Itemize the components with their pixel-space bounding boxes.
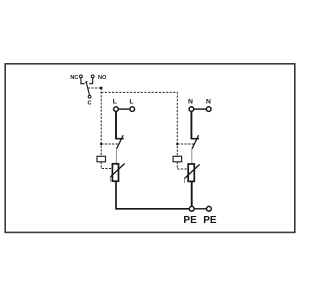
wire N1 down [190, 111, 192, 138]
wire L1-L2 [118, 108, 130, 110]
wire link lever to RV1 (gray) [115, 149, 117, 164]
terminal C [88, 95, 91, 98]
varistor RV1 diagonal [110, 164, 124, 177]
dashed link branch to right column [101, 92, 177, 156]
varistor RV1 body [112, 164, 118, 181]
svg-text:N: N [206, 99, 211, 106]
varistor RV2 body [188, 164, 194, 181]
disconnector F1 fixed contact foot [115, 138, 123, 140]
terminal L2 [130, 107, 135, 112]
svg-text:L: L [113, 99, 117, 106]
wire N1-N2 [194, 108, 207, 110]
switch lever S1 (changeover remote-signal contact) [86, 82, 89, 95]
dashed link T1 to varistor RV1 [101, 162, 112, 169]
svg-text:NC: NC [70, 75, 78, 81]
terminal N2 [206, 107, 211, 112]
svg-text:PE: PE [183, 215, 197, 226]
varistor RV1 tail (gray) [109, 177, 111, 182]
wire PE1-PE2 [194, 208, 206, 210]
terminal L1 [114, 107, 119, 112]
terminal PE2 [207, 206, 212, 211]
thermal indicator box T2 [173, 156, 182, 162]
wire NC leg [81, 78, 85, 84]
wire link lever to RV2 (gray) [191, 149, 193, 165]
node C junction dot [176, 143, 178, 145]
node B junction dot [100, 143, 102, 145]
disconnector F2 lever [192, 137, 198, 149]
dashed link node B to left disconnector [101, 143, 118, 145]
node A junction dot [100, 87, 103, 90]
border frame [5, 64, 295, 233]
svg-text:PE: PE [203, 215, 217, 226]
terminal N1 [189, 107, 194, 112]
svg-text:C: C [88, 101, 92, 107]
contact tick S1 [85, 80, 87, 83]
wire RV2 down to PE terminal [191, 181, 193, 206]
svg-text:N: N [188, 99, 193, 106]
terminal NC [80, 75, 83, 78]
disconnector F1 lever [117, 137, 123, 149]
disconnector F1 contact tick [122, 135, 123, 137]
terminal NO [91, 75, 94, 78]
wire L1 down [115, 111, 117, 138]
varistor RV2 tail (gray) [184, 179, 186, 184]
dashed link down left column [100, 88, 102, 156]
varistor RV2 diagonal [185, 164, 200, 178]
disconnector F2 contact tick [198, 135, 199, 137]
dashed link node C to right disconnector [177, 143, 193, 145]
dashed link lever to node A [88, 87, 101, 89]
svg-text:L: L [129, 99, 133, 106]
wire RV1 to PE bus [116, 181, 189, 209]
disconnector F2 fixed contact foot [191, 138, 199, 140]
dashed link T2 to varistor RV2 [177, 162, 188, 169]
svg-text:NO: NO [98, 75, 107, 81]
wire NO leg [89, 78, 93, 84]
terminal PE1 [189, 206, 194, 211]
thermal indicator box T1 [97, 156, 106, 162]
